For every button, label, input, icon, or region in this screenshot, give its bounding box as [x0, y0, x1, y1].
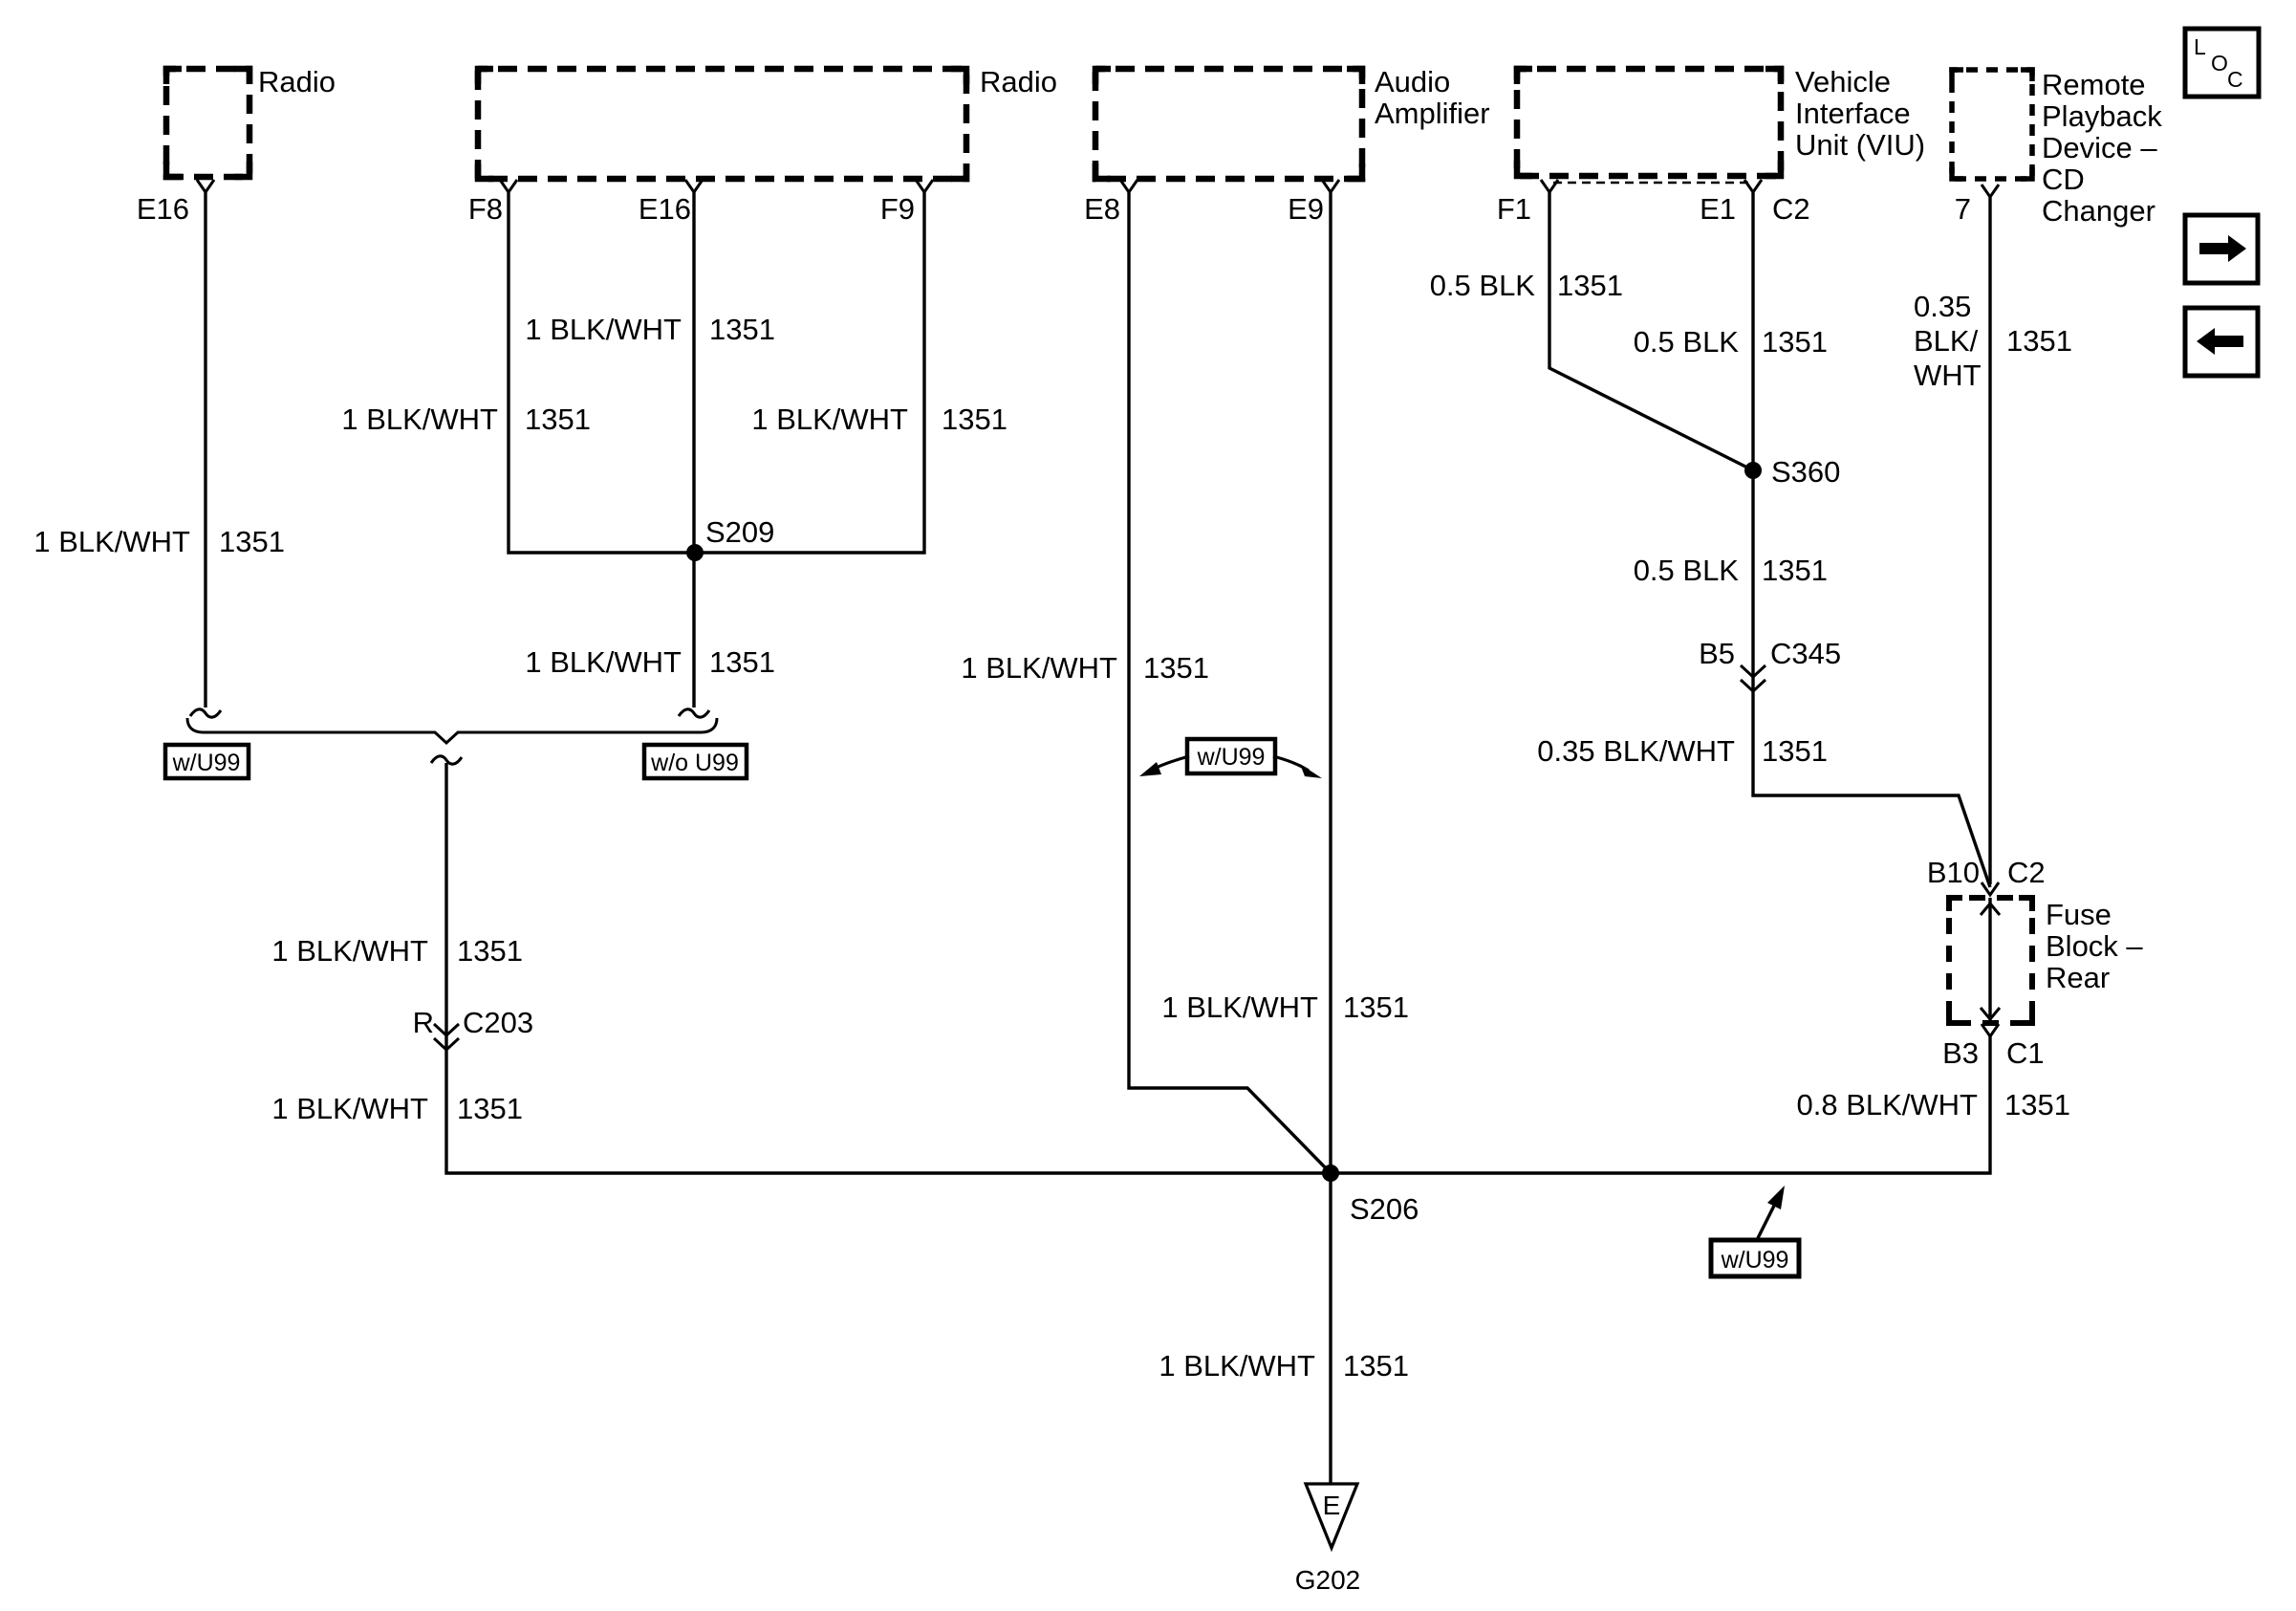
svg-text:1351: 1351 — [1343, 1349, 1409, 1382]
svg-text:CD: CD — [2042, 163, 2085, 196]
page symbol arrow right — [2185, 215, 2258, 283]
svg-text:w/U99: w/U99 — [172, 750, 241, 776]
wire E16 center down through S209 — [692, 192, 695, 708]
svg-text:Fuse: Fuse — [2046, 898, 2112, 931]
svg-text:w/o U99: w/o U99 — [650, 750, 739, 776]
svg-text:B3: B3 — [1942, 1036, 1979, 1070]
component box Radio (center) — [478, 69, 966, 179]
svg-text:1351: 1351 — [709, 645, 775, 679]
option tag w/U99 (bottom right) with arrow — [1711, 1240, 1799, 1276]
svg-text:Vehicle: Vehicle — [1795, 65, 1891, 98]
svg-text:E16: E16 — [137, 192, 189, 226]
wire E1 down through S360 to fuse block — [1753, 192, 1990, 887]
wire E9 down to S206 — [1329, 192, 1332, 1173]
svg-text:1351: 1351 — [457, 1092, 523, 1125]
svg-text:G202: G202 — [1295, 1565, 1361, 1595]
svg-text:Block –: Block – — [2046, 929, 2143, 963]
svg-text:C1: C1 — [2006, 1036, 2045, 1070]
svg-text:Interface: Interface — [1795, 97, 1911, 130]
page symbol LOC — [2185, 29, 2259, 97]
svg-text:0.35 BLK/WHT: 0.35 BLK/WHT — [1537, 734, 1735, 768]
svg-text:E16: E16 — [639, 192, 691, 226]
svg-text:1 BLK/WHT: 1 BLK/WHT — [271, 934, 428, 968]
svg-text:1351: 1351 — [709, 313, 775, 346]
svg-text:C345: C345 — [1770, 637, 1841, 670]
svg-text:1 BLK/WHT: 1 BLK/WHT — [751, 403, 908, 436]
svg-text:1351: 1351 — [2004, 1088, 2070, 1121]
svg-text:B5: B5 — [1699, 637, 1735, 670]
connector pin F9 — [916, 180, 933, 192]
svg-text:C203: C203 — [463, 1006, 533, 1039]
svg-text:Radio: Radio — [980, 65, 1057, 98]
wire ground branch down and bus right — [446, 763, 1990, 1173]
svg-text:1351: 1351 — [1557, 269, 1623, 302]
svg-text:1 BLK/WHT: 1 BLK/WHT — [961, 651, 1117, 685]
svg-text:Radio: Radio — [258, 65, 336, 98]
fuse path arrow up — [1981, 903, 2000, 915]
connector pin E16 (center radio) — [685, 180, 703, 192]
svg-text:Playback: Playback — [2042, 99, 2162, 133]
svg-text:1 BLK/WHT: 1 BLK/WHT — [341, 403, 498, 436]
svg-text:S206: S206 — [1350, 1192, 1419, 1226]
svg-text:1 BLK/WHT: 1 BLK/WHT — [271, 1092, 428, 1125]
fuse block rear box — [1949, 898, 2032, 1023]
svg-text:Rear: Rear — [2046, 961, 2110, 994]
svg-text:w/U99: w/U99 — [1197, 744, 1266, 771]
svg-text:Amplifier: Amplifier — [1375, 97, 1490, 130]
svg-text:1 BLK/WHT: 1 BLK/WHT — [1159, 1349, 1315, 1382]
fuse path arrow down — [1981, 1008, 2000, 1019]
wire E16 left radio down — [204, 192, 206, 708]
svg-text:1 BLK/WHT: 1 BLK/WHT — [33, 525, 190, 558]
wire E8 down to S206 — [1129, 192, 1331, 1173]
svg-text:1351: 1351 — [1762, 325, 1828, 359]
wire CD changer down — [1988, 197, 1991, 884]
svg-text:BLK/: BLK/ — [1914, 324, 1979, 358]
svg-text:1351: 1351 — [1762, 554, 1828, 587]
break symbol below brace — [431, 756, 462, 764]
connector pin E9 — [1322, 180, 1339, 192]
wire F1 to S360 — [1549, 192, 1753, 470]
svg-text:E9: E9 — [1288, 192, 1324, 226]
svg-text:w/U99: w/U99 — [1721, 1247, 1789, 1274]
svg-text:C2: C2 — [1772, 192, 1810, 226]
component box Vehicle Interface Unit — [1517, 69, 1781, 176]
svg-text:0.8 BLK/WHT: 0.8 BLK/WHT — [1797, 1088, 1979, 1121]
connector pin E1 — [1744, 180, 1762, 192]
svg-text:Device –: Device – — [2042, 131, 2157, 164]
ground G202 — [1306, 1484, 1357, 1548]
connector pin 7 — [1982, 185, 1999, 197]
svg-text:1351: 1351 — [525, 403, 591, 436]
break symbol — [679, 709, 709, 717]
svg-text:1351: 1351 — [1762, 734, 1828, 768]
wire S206 to ground — [1329, 1173, 1332, 1484]
svg-text:C: C — [2227, 67, 2243, 92]
svg-text:E: E — [1323, 1491, 1341, 1520]
connector pin E16 (left radio) — [197, 180, 214, 192]
connector pin E8 — [1120, 180, 1137, 192]
svg-text:F9: F9 — [880, 192, 915, 226]
arrow to wire E8 — [1154, 756, 1189, 769]
component box Audio Amplifier — [1095, 69, 1362, 179]
svg-text:1351: 1351 — [1143, 651, 1209, 685]
option tag w/U99 with arrows — [1187, 739, 1275, 773]
alternatives brace — [187, 718, 717, 743]
svg-text:F1: F1 — [1497, 192, 1531, 226]
svg-text:1351: 1351 — [1343, 991, 1409, 1024]
splice S209 — [686, 544, 704, 561]
svg-text:0.5 BLK: 0.5 BLK — [1634, 554, 1740, 587]
svg-text:Unit (VIU): Unit (VIU) — [1795, 128, 1925, 162]
svg-text:Audio: Audio — [1375, 65, 1450, 98]
fuse block internal wire with arrows — [1988, 898, 1991, 1023]
svg-text:L: L — [2194, 34, 2206, 59]
thin dashed connector line under VIU — [1553, 182, 1749, 184]
svg-text:Changer: Changer — [2042, 194, 2155, 228]
svg-text:1 BLK/WHT: 1 BLK/WHT — [525, 313, 682, 346]
svg-text:F8: F8 — [468, 192, 503, 226]
svg-text:1 BLK/WHT: 1 BLK/WHT — [525, 645, 682, 679]
svg-text:7: 7 — [1955, 192, 1971, 226]
option box w/o U99 — [644, 745, 747, 778]
connector pin F8 — [500, 180, 517, 192]
svg-text:0.5 BLK: 0.5 BLK — [1634, 325, 1740, 359]
component box Radio (left) — [166, 69, 249, 177]
svg-text:WHT: WHT — [1914, 359, 1982, 392]
option box w/U99 (left) — [165, 745, 249, 778]
svg-text:S209: S209 — [705, 515, 774, 549]
svg-text:B10: B10 — [1927, 856, 1980, 889]
svg-text:1351: 1351 — [457, 934, 523, 968]
wire F8 and F9 to S209 — [509, 192, 924, 553]
arrow to ground bus wire — [1757, 1204, 1775, 1240]
svg-text:O: O — [2211, 51, 2228, 76]
splice S360 — [1744, 462, 1762, 479]
in-line connector B5 C345 — [1741, 665, 1765, 691]
splice S206 — [1322, 1165, 1339, 1182]
break symbol — [190, 709, 221, 717]
connector B10 C2 — [1982, 882, 1999, 895]
connector B3 C1 — [1982, 1024, 1999, 1036]
in-line connector R C203 — [434, 1024, 459, 1050]
svg-text:E8: E8 — [1084, 192, 1120, 226]
svg-text:S360: S360 — [1771, 455, 1840, 489]
svg-text:0.35: 0.35 — [1914, 290, 1971, 323]
svg-text:1 BLK/WHT: 1 BLK/WHT — [1161, 991, 1318, 1024]
svg-text:C2: C2 — [2007, 856, 2046, 889]
svg-text:1351: 1351 — [219, 525, 285, 558]
svg-text:1351: 1351 — [942, 403, 1007, 436]
svg-text:E1: E1 — [1700, 192, 1736, 226]
svg-text:0.5 BLK: 0.5 BLK — [1430, 269, 1536, 302]
svg-text:R: R — [413, 1006, 434, 1039]
component box Remote Playback Device CD Changer — [1952, 70, 2032, 179]
svg-text:Remote: Remote — [2042, 68, 2146, 101]
svg-text:1351: 1351 — [2006, 324, 2072, 358]
page symbol arrow left — [2185, 308, 2258, 376]
connector pin F1 — [1541, 180, 1558, 192]
arrow to wire E9 — [1273, 756, 1309, 771]
